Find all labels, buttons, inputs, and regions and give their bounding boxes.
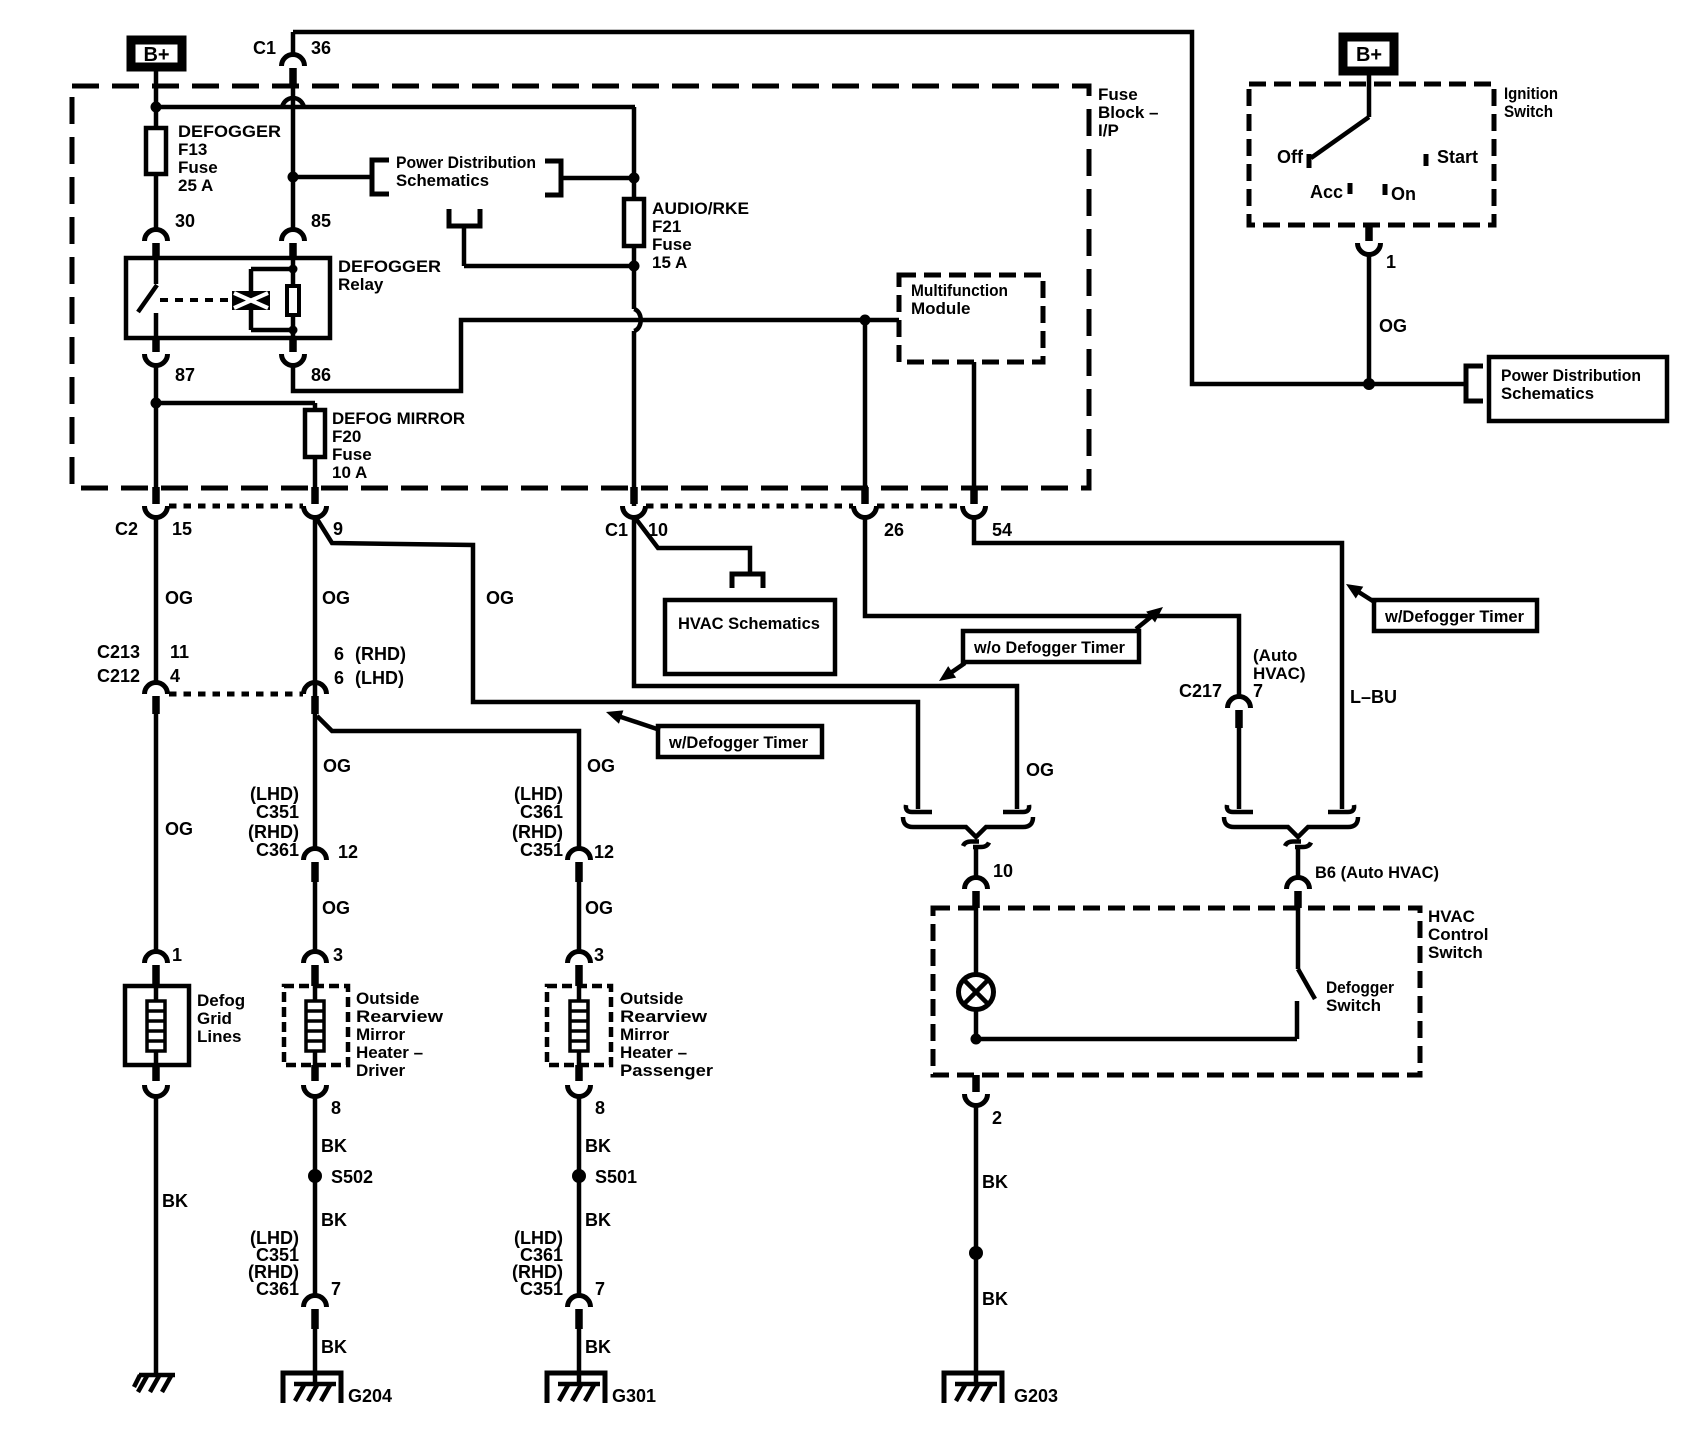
svg-text:7: 7 bbox=[595, 1279, 605, 1299]
svg-text:12: 12 bbox=[338, 842, 358, 862]
svg-text:C351: C351 bbox=[520, 1279, 563, 1299]
svg-text:Ignition: Ignition bbox=[1504, 84, 1558, 103]
svg-text:3: 3 bbox=[333, 945, 343, 965]
svg-text:S501: S501 bbox=[595, 1167, 637, 1187]
svg-text:G301: G301 bbox=[612, 1386, 656, 1406]
svg-text:Block –: Block – bbox=[1098, 103, 1158, 122]
svg-text:Fuse: Fuse bbox=[1098, 85, 1138, 104]
svg-text:12: 12 bbox=[594, 842, 614, 862]
svg-text:C361: C361 bbox=[256, 840, 299, 860]
svg-text:OG: OG bbox=[322, 588, 350, 608]
svg-text:30: 30 bbox=[175, 211, 195, 231]
svg-text:BK: BK bbox=[321, 1337, 347, 1357]
svg-text:54: 54 bbox=[992, 520, 1012, 540]
svg-text:OG: OG bbox=[587, 756, 615, 776]
svg-text:87: 87 bbox=[175, 365, 195, 385]
svg-text:Switch: Switch bbox=[1326, 996, 1381, 1015]
svg-text:Defogger: Defogger bbox=[1326, 978, 1394, 997]
svg-text:Fuse: Fuse bbox=[652, 235, 692, 254]
svg-text:HVAC Schematics: HVAC Schematics bbox=[678, 614, 820, 633]
svg-text:86: 86 bbox=[311, 365, 331, 385]
svg-text:9: 9 bbox=[333, 519, 343, 539]
svg-text:(RHD): (RHD) bbox=[248, 822, 299, 842]
svg-text:BK: BK bbox=[982, 1289, 1008, 1309]
svg-text:Module: Module bbox=[911, 299, 971, 318]
svg-text:1: 1 bbox=[172, 945, 182, 965]
svg-text:6: 6 bbox=[334, 668, 344, 688]
svg-text:1: 1 bbox=[1386, 252, 1396, 272]
svg-text:Multifunction: Multifunction bbox=[911, 281, 1008, 300]
svg-text:Heater –: Heater – bbox=[620, 1043, 687, 1062]
svg-text:Acc: Acc bbox=[1310, 182, 1343, 202]
svg-text:C351: C351 bbox=[520, 840, 563, 860]
svg-text:DEFOGGER: DEFOGGER bbox=[338, 257, 441, 276]
svg-text:Outside: Outside bbox=[356, 989, 419, 1008]
svg-text:C361: C361 bbox=[520, 802, 563, 822]
svg-text:OG: OG bbox=[486, 588, 514, 608]
svg-text:Switch: Switch bbox=[1504, 102, 1553, 121]
svg-text:Power Distribution: Power Distribution bbox=[396, 153, 536, 172]
svg-text:S502: S502 bbox=[331, 1167, 373, 1187]
svg-text:BK: BK bbox=[162, 1191, 188, 1211]
svg-text:w/o Defogger Timer: w/o Defogger Timer bbox=[973, 638, 1125, 657]
svg-text:BK: BK bbox=[321, 1210, 347, 1230]
svg-text:Schematics: Schematics bbox=[1501, 384, 1594, 403]
svg-text:OG: OG bbox=[322, 898, 350, 918]
svg-text:8: 8 bbox=[595, 1098, 605, 1118]
svg-text:BK: BK bbox=[585, 1337, 611, 1357]
svg-text:26: 26 bbox=[884, 520, 904, 540]
svg-text:85: 85 bbox=[311, 211, 331, 231]
svg-text:w/Defogger Timer: w/Defogger Timer bbox=[1384, 607, 1524, 626]
svg-text:OG: OG bbox=[165, 588, 193, 608]
svg-text:F20: F20 bbox=[332, 427, 361, 446]
svg-text:3: 3 bbox=[594, 945, 604, 965]
svg-text:Fuse: Fuse bbox=[178, 158, 218, 177]
svg-text:OG: OG bbox=[1379, 316, 1407, 336]
svg-text:15: 15 bbox=[172, 519, 192, 539]
svg-text:Schematics: Schematics bbox=[396, 171, 489, 190]
svg-text:B+: B+ bbox=[1356, 44, 1382, 66]
svg-text:C1: C1 bbox=[605, 520, 628, 540]
svg-text:C2: C2 bbox=[115, 519, 138, 539]
svg-text:Control: Control bbox=[1428, 925, 1488, 944]
svg-text:OG: OG bbox=[585, 898, 613, 918]
svg-text:Passenger: Passenger bbox=[620, 1061, 713, 1080]
svg-text:7: 7 bbox=[1253, 681, 1263, 701]
svg-text:I/P: I/P bbox=[1098, 121, 1119, 140]
svg-text:w/Defogger Timer: w/Defogger Timer bbox=[668, 733, 808, 752]
svg-text:(LHD): (LHD) bbox=[355, 668, 404, 688]
svg-text:DEFOGGER: DEFOGGER bbox=[178, 122, 281, 141]
svg-text:11: 11 bbox=[170, 642, 189, 662]
svg-text:4: 4 bbox=[170, 666, 180, 686]
svg-text:Mirror: Mirror bbox=[356, 1025, 406, 1044]
svg-text:AUDIO/RKE: AUDIO/RKE bbox=[652, 199, 749, 218]
svg-text:G203: G203 bbox=[1014, 1386, 1058, 1406]
svg-text:8: 8 bbox=[331, 1098, 341, 1118]
svg-text:On: On bbox=[1391, 184, 1416, 204]
svg-text:BK: BK bbox=[585, 1136, 611, 1156]
svg-text:Fuse: Fuse bbox=[332, 445, 372, 464]
svg-text:L–BU: L–BU bbox=[1350, 687, 1397, 707]
svg-text:Off: Off bbox=[1277, 147, 1304, 167]
svg-text:BK: BK bbox=[321, 1136, 347, 1156]
svg-text:Rearview: Rearview bbox=[620, 1007, 708, 1026]
svg-text:BK: BK bbox=[982, 1172, 1008, 1192]
svg-text:C351: C351 bbox=[256, 802, 299, 822]
svg-text:C213: C213 bbox=[97, 642, 140, 662]
svg-text:Power Distribution: Power Distribution bbox=[1501, 366, 1641, 385]
svg-text:DEFOG MIRROR: DEFOG MIRROR bbox=[332, 409, 465, 428]
svg-text:Mirror: Mirror bbox=[620, 1025, 670, 1044]
svg-text:Switch: Switch bbox=[1428, 943, 1483, 962]
svg-text:BK: BK bbox=[585, 1210, 611, 1230]
svg-text:15 A: 15 A bbox=[652, 253, 687, 272]
svg-text:Defog: Defog bbox=[197, 991, 245, 1010]
svg-text:(RHD): (RHD) bbox=[512, 822, 563, 842]
svg-text:6: 6 bbox=[334, 644, 344, 664]
svg-text:C361: C361 bbox=[256, 1279, 299, 1299]
svg-text:Driver: Driver bbox=[356, 1061, 406, 1080]
svg-text:Relay: Relay bbox=[338, 275, 384, 294]
svg-text:25 A: 25 A bbox=[178, 176, 213, 195]
svg-text:7: 7 bbox=[331, 1279, 341, 1299]
svg-text:C217: C217 bbox=[1179, 681, 1222, 701]
svg-text:10: 10 bbox=[993, 861, 1013, 881]
svg-text:Start: Start bbox=[1437, 147, 1478, 167]
svg-text:Outside: Outside bbox=[620, 989, 683, 1008]
svg-text:G204: G204 bbox=[348, 1386, 392, 1406]
svg-text:Heater –: Heater – bbox=[356, 1043, 423, 1062]
svg-text:2: 2 bbox=[992, 1108, 1002, 1128]
svg-text:OG: OG bbox=[323, 756, 351, 776]
svg-text:B6 (Auto HVAC): B6 (Auto HVAC) bbox=[1315, 863, 1439, 882]
svg-text:36: 36 bbox=[311, 38, 331, 58]
svg-text:Grid: Grid bbox=[197, 1009, 232, 1028]
svg-text:C1: C1 bbox=[253, 38, 276, 58]
svg-text:F13: F13 bbox=[178, 140, 207, 159]
svg-text:Lines: Lines bbox=[197, 1027, 241, 1046]
svg-text:C212: C212 bbox=[97, 666, 140, 686]
svg-text:HVAC: HVAC bbox=[1428, 907, 1475, 926]
svg-text:(RHD): (RHD) bbox=[355, 644, 406, 664]
svg-text:Rearview: Rearview bbox=[356, 1007, 444, 1026]
svg-text:OG: OG bbox=[165, 819, 193, 839]
svg-text:(Auto: (Auto bbox=[1253, 646, 1297, 665]
svg-text:OG: OG bbox=[1026, 760, 1054, 780]
svg-text:(LHD): (LHD) bbox=[514, 784, 563, 804]
svg-text:(LHD): (LHD) bbox=[250, 784, 299, 804]
svg-text:B+: B+ bbox=[143, 44, 169, 66]
svg-text:10 A: 10 A bbox=[332, 463, 367, 482]
svg-text:F21: F21 bbox=[652, 217, 681, 236]
